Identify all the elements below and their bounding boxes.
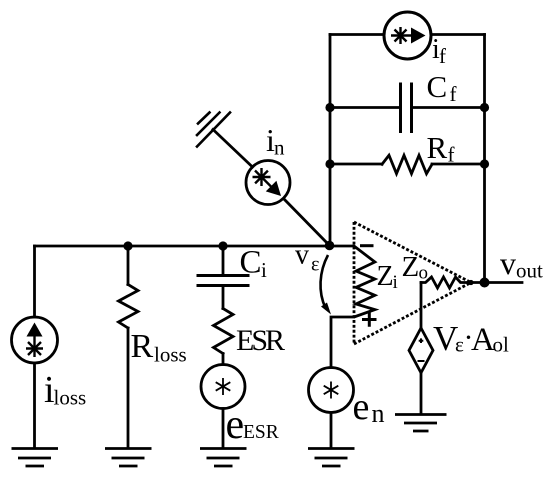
svg-text:Z: Z (402, 251, 420, 283)
svg-text:o: o (419, 263, 429, 284)
svg-text:n: n (274, 136, 285, 160)
svg-text:C: C (240, 245, 262, 281)
svg-text:A: A (471, 322, 495, 358)
svg-text:C: C (427, 69, 448, 104)
svg-text:ε: ε (311, 254, 319, 276)
svg-text:v: v (500, 245, 516, 281)
svg-text:f: f (439, 44, 446, 68)
svg-text:e: e (353, 386, 370, 428)
svg-text:ol: ol (493, 333, 510, 357)
svg-text:ESR: ESR (236, 324, 285, 357)
svg-text:n: n (372, 399, 385, 428)
svg-text:e: e (226, 402, 245, 448)
svg-text:loss: loss (154, 343, 187, 367)
svg-text:i: i (261, 258, 267, 282)
svg-text:R: R (131, 328, 154, 365)
svg-text:out: out (516, 259, 543, 283)
svg-text:f: f (450, 82, 457, 106)
svg-text:Z: Z (377, 261, 394, 292)
svg-text:i: i (393, 272, 398, 293)
svg-text:loss: loss (54, 386, 87, 410)
svg-text:R: R (427, 130, 448, 165)
svg-text:ESR: ESR (243, 422, 279, 443)
svg-text:f: f (448, 143, 455, 167)
svg-text:v: v (295, 240, 309, 271)
